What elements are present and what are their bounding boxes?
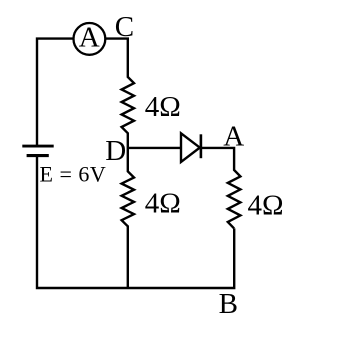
wire node D to diode anode [128,147,181,149]
wire middle branch: ammeter to corner C, down through resistor R1, node D, resistor R2, to bottom rail [106,39,134,289]
svg-text:4Ω: 4Ω [145,188,181,220]
svg-text:4Ω: 4Ω [248,190,284,222]
svg-text:E = 6V: E = 6V [40,162,107,187]
battery E top plate (long) [22,145,53,148]
svg-text:4Ω: 4Ω [145,91,181,123]
wire top-left loop (top wire to ammeter, left vertical down to battery) [37,39,73,146]
svg-text:A: A [79,22,100,54]
svg-text:B: B [219,288,238,320]
diode D1 triangle [181,133,200,162]
diode D1 cathode bar [200,134,203,158]
svg-text:A: A [223,120,244,152]
svg-text:D: D [105,135,126,167]
battery E bottom plate (short) [27,154,49,157]
ammeter A [74,23,106,55]
wire left-bottom-right loop (battery minus to bottom rail to node B up to resistor) [37,156,234,288]
wire diode cathode to node A corner, down through resistor R3 [201,148,240,229]
